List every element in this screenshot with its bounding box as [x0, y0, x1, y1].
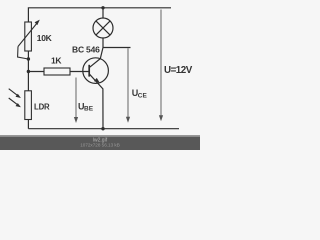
- node junction pot wiper: [27, 57, 30, 60]
- wire top rail: [28, 8, 171, 22]
- svg-text:BE: BE: [84, 106, 94, 113]
- transistor Q1 BC546 circle: [83, 58, 109, 84]
- arrow UBE: [75, 78, 77, 119]
- LDR light arrow 1: [9, 89, 18, 96]
- node junction lamp top: [101, 6, 104, 9]
- arrow supply U=12V: [160, 10, 162, 117]
- wire left vertical: [27, 51, 29, 91]
- potentiometer wiper hook wire: [18, 47, 29, 60]
- svg-text:LDR: LDR: [34, 102, 50, 111]
- caption bar: [0, 135, 200, 150]
- potentiometer R1 10K body: [25, 22, 32, 51]
- svg-text:10K: 10K: [37, 33, 53, 43]
- node junction emitter bottom: [101, 127, 104, 130]
- svg-text:BC 546: BC 546: [72, 44, 100, 54]
- svg-text:1K: 1K: [51, 56, 62, 66]
- wire collector: [90, 38, 103, 67]
- wire bottom rail: [28, 128, 179, 130]
- node junction base: [27, 70, 30, 73]
- transistor base bar: [88, 65, 90, 77]
- LDR body: [25, 91, 32, 120]
- lamp L1: [93, 18, 113, 38]
- wire lamp drop: [102, 8, 104, 18]
- wire left bottom: [27, 120, 29, 129]
- potentiometer wiper arrow: [18, 23, 38, 47]
- svg-text:1072x728 56.13 kB: 1072x728 56.13 kB: [80, 143, 120, 148]
- LDR light arrow 2: [9, 98, 18, 105]
- wire collector stub: [103, 47, 131, 49]
- wire base: [28, 71, 89, 73]
- arrow UCE: [127, 48, 129, 118]
- svg-text:U=12V: U=12V: [164, 65, 193, 76]
- transistor emitter: [90, 74, 103, 128]
- resistor R2 1K body: [44, 68, 70, 75]
- svg-text:CE: CE: [138, 92, 148, 99]
